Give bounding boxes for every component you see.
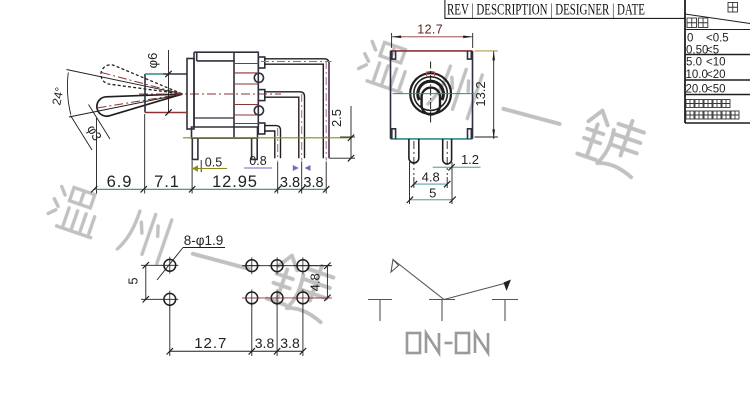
svg-text:4.8: 4.8 — [307, 273, 322, 291]
svg-text:13.2: 13.2 — [473, 81, 488, 106]
svg-text:2.5: 2.5 — [329, 109, 344, 127]
svg-text:20.0: 20.0 — [686, 84, 708, 96]
svg-text:3.8: 3.8 — [255, 335, 275, 351]
svg-text:0.8: 0.8 — [249, 154, 266, 168]
svg-text:<50: <50 — [706, 84, 726, 96]
svg-text:0: 0 — [687, 33, 693, 45]
svg-text:REV | DESCRIPTION | DESIGNER |: REV | DESCRIPTION | DESIGNER | DATE — [447, 2, 645, 19]
svg-text:5.0: 5.0 — [686, 57, 702, 69]
svg-text:φ6: φ6 — [145, 53, 160, 69]
svg-text:4.8: 4.8 — [422, 170, 440, 185]
svg-text:<20: <20 — [706, 69, 726, 81]
svg-text:<10: <10 — [706, 57, 726, 69]
svg-text:1.2: 1.2 — [461, 152, 479, 167]
svg-text:<0.5: <0.5 — [706, 33, 729, 45]
svg-text:3.8: 3.8 — [303, 175, 323, 191]
svg-text:8-φ1.9: 8-φ1.9 — [184, 233, 224, 248]
svg-text:12.7: 12.7 — [417, 23, 443, 37]
svg-text:5: 5 — [126, 277, 141, 284]
svg-text:7.1: 7.1 — [154, 173, 180, 191]
svg-text:10.0: 10.0 — [686, 69, 708, 81]
svg-text:5: 5 — [429, 186, 436, 201]
svg-text:6.9: 6.9 — [107, 173, 133, 191]
svg-text:12.7: 12.7 — [194, 335, 227, 352]
svg-text:12.95: 12.95 — [212, 173, 258, 191]
svg-text:0.5: 0.5 — [205, 156, 222, 170]
svg-text:3.8: 3.8 — [280, 335, 300, 351]
svg-text:<5: <5 — [706, 44, 719, 56]
svg-text:3.8: 3.8 — [280, 175, 300, 191]
